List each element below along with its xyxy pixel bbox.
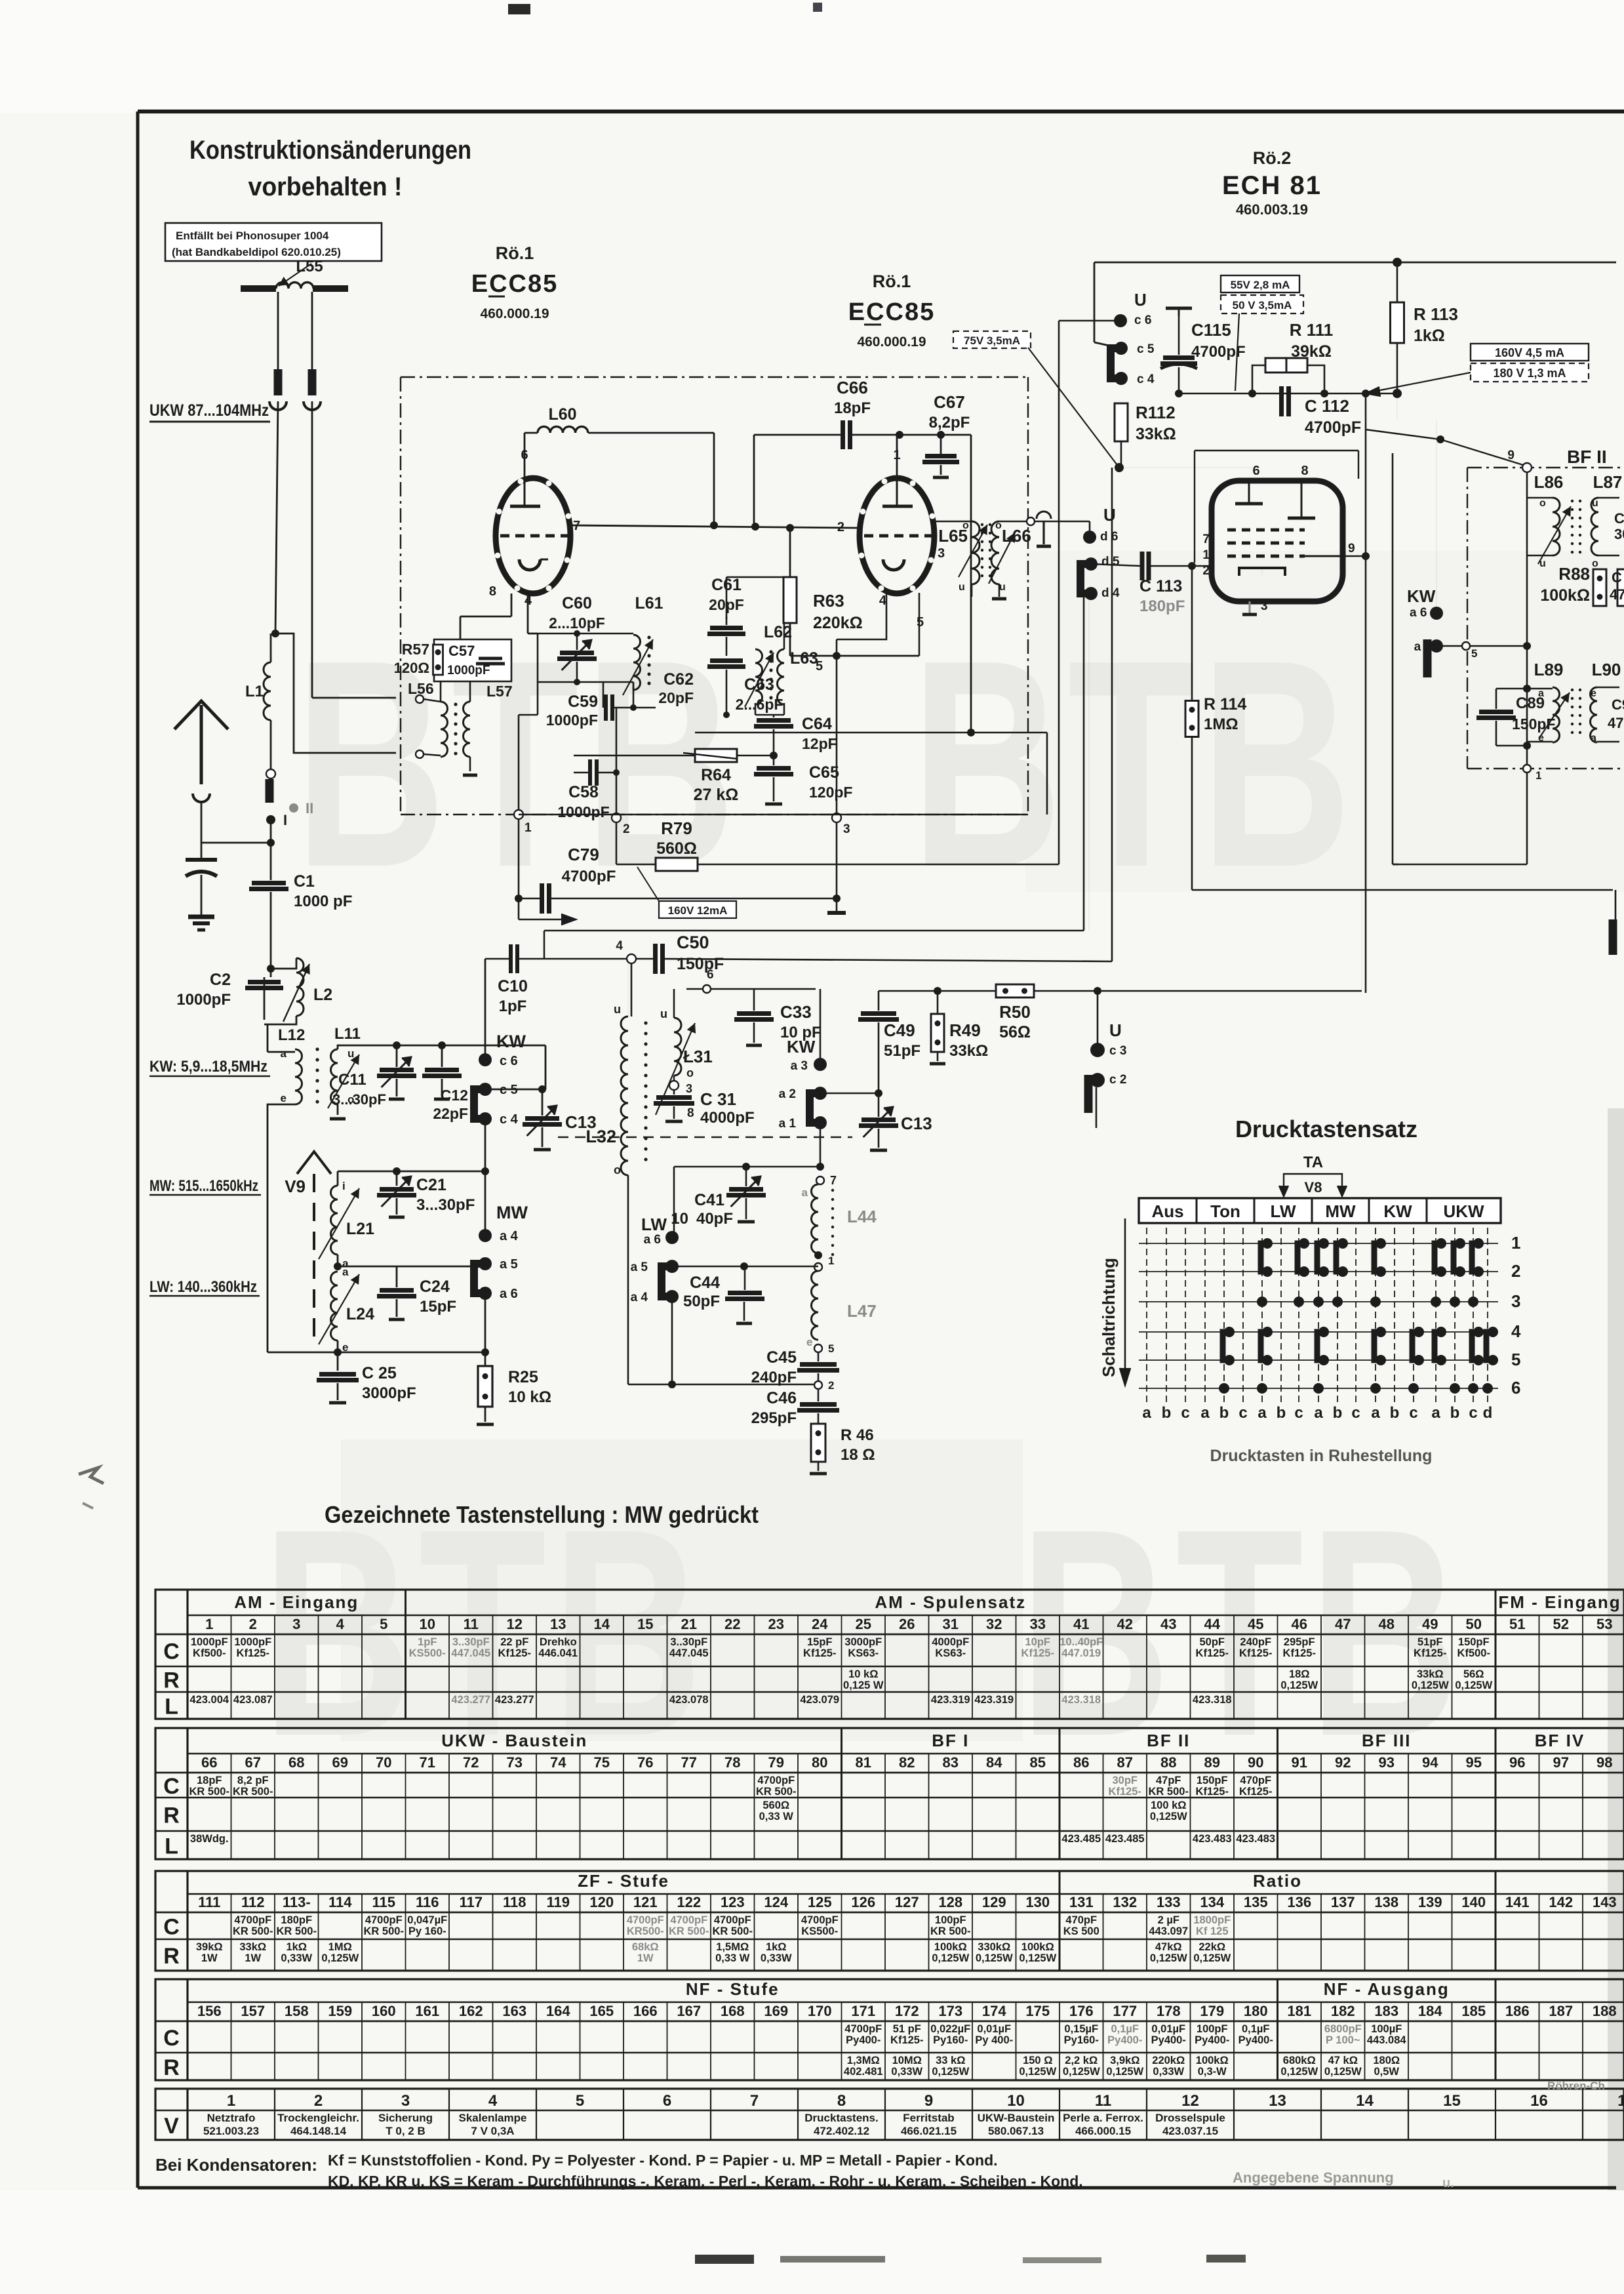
capacitor C1	[252, 881, 286, 885]
svg-text:7: 7	[1202, 533, 1210, 546]
svg-text:b: b	[1219, 1404, 1229, 1422]
svg-text:20pF: 20pF	[658, 689, 694, 706]
resistor R57 C57 network	[434, 639, 511, 681]
svg-text:KR500-: KR500-	[627, 1925, 664, 1937]
svg-text:560Ω: 560Ω	[762, 1800, 789, 1811]
svg-text:KW: KW	[1383, 1201, 1412, 1221]
svg-text:0,5W: 0,5W	[1374, 2066, 1399, 2078]
svg-text:Kf125-: Kf125-	[1239, 1786, 1272, 1798]
svg-text:1pF: 1pF	[418, 1636, 437, 1648]
svg-text:Py 400-: Py 400-	[975, 2034, 1013, 2046]
svg-text:a 5: a 5	[500, 1257, 518, 1272]
svg-text:C11: C11	[338, 1071, 366, 1089]
svg-text:C49: C49	[884, 1020, 915, 1040]
svg-text:0,047µF: 0,047µF	[407, 1914, 447, 1926]
svg-text:C50: C50	[677, 933, 709, 952]
svg-text:ZF - Stufe: ZF - Stufe	[578, 1871, 669, 1891]
svg-text:b: b	[1450, 1404, 1460, 1422]
svg-text:8,2 pF: 8,2 pF	[237, 1775, 269, 1786]
svg-text:10pF: 10pF	[1025, 1636, 1050, 1648]
wire	[820, 1093, 879, 1095]
svg-text:87: 87	[1117, 1754, 1133, 1771]
wire pin9 to bus	[1343, 555, 1366, 557]
svg-text:L89: L89	[1534, 660, 1564, 679]
svg-text:45: 45	[1248, 1616, 1263, 1632]
svg-text:159: 159	[328, 2003, 352, 2019]
svg-text:Angegebene Spannung: Angegebene Spannung	[1233, 2169, 1394, 2186]
svg-text:1kΩ: 1kΩ	[766, 1941, 787, 1953]
svg-text:R79: R79	[661, 818, 692, 838]
svg-text:C79: C79	[568, 845, 599, 864]
svg-text:33kΩ: 33kΩ	[949, 1042, 988, 1060]
svg-text:50 V 3,5mA: 50 V 3,5mA	[1233, 299, 1292, 312]
svg-text:32: 32	[986, 1616, 1002, 1632]
svg-text:125: 125	[808, 1894, 832, 1910]
svg-text:460.003.19: 460.003.19	[1236, 201, 1308, 218]
svg-text:130: 130	[1025, 1894, 1050, 1910]
svg-text:a 1: a 1	[779, 1117, 797, 1131]
svg-text:Aus: Aus	[1151, 1201, 1183, 1221]
resistor R114	[1191, 566, 1193, 700]
svg-text:L32: L32	[585, 1127, 616, 1146]
svg-text:3: 3	[1261, 599, 1268, 613]
svg-text:10..40pF: 10..40pF	[1060, 1636, 1103, 1648]
svg-text:C10: C10	[498, 977, 528, 996]
svg-text:15: 15	[637, 1616, 653, 1632]
svg-text:15: 15	[1443, 2092, 1461, 2110]
svg-text:423.483: 423.483	[1236, 1833, 1275, 1845]
capacitor C24	[380, 1288, 414, 1293]
svg-text:179: 179	[1200, 2003, 1224, 2019]
svg-text:21: 21	[681, 1616, 697, 1632]
svg-text:C 31: C 31	[700, 1089, 736, 1109]
svg-text:51 pF: 51 pF	[893, 2023, 921, 2035]
svg-text:AM - Eingang: AM - Eingang	[234, 1592, 359, 1612]
svg-text:160V 12mA: 160V 12mA	[668, 904, 728, 917]
wire UKW box bottom	[519, 814, 1028, 815]
svg-text:47pF: 47pF	[1156, 1775, 1181, 1786]
svg-text:158: 158	[285, 2003, 309, 2019]
svg-text:51: 51	[1509, 1616, 1525, 1632]
svg-text:5: 5	[1511, 1350, 1520, 1369]
svg-text:R64: R64	[701, 766, 731, 784]
svg-text:R57: R57	[402, 641, 429, 658]
svg-text:402.481: 402.481	[844, 2066, 883, 2078]
capacitor C41	[729, 1187, 763, 1192]
wire	[773, 715, 775, 717]
cathode pin 3	[1249, 601, 1251, 614]
svg-text:C67: C67	[934, 392, 965, 412]
svg-text:141: 141	[1505, 1894, 1530, 1910]
svg-text:c: c	[1181, 1404, 1189, 1422]
svg-text:a 4: a 4	[500, 1229, 519, 1243]
svg-text:140: 140	[1461, 1894, 1486, 1910]
svg-text:13: 13	[550, 1616, 566, 1632]
svg-text:0,125W: 0,125W	[1106, 2066, 1143, 2078]
svg-text:51pF: 51pF	[884, 1042, 921, 1060]
svg-text:150pF: 150pF	[1197, 1775, 1228, 1786]
svg-text:1,5MΩ: 1,5MΩ	[716, 1941, 749, 1953]
svg-text:70: 70	[376, 1754, 391, 1771]
svg-text:R: R	[163, 2055, 180, 2080]
svg-text:a 6: a 6	[644, 1233, 661, 1247]
svg-text:98: 98	[1596, 1754, 1612, 1771]
svg-text:0,33W: 0,33W	[1153, 2066, 1184, 2078]
svg-text:a 5: a 5	[631, 1260, 648, 1274]
svg-text:71: 71	[420, 1754, 435, 1771]
svg-text:KS500-: KS500-	[409, 1647, 446, 1659]
svg-text:126: 126	[851, 1894, 875, 1910]
svg-text:1: 1	[1535, 769, 1541, 782]
svg-text:181: 181	[1287, 2003, 1311, 2019]
svg-text:116: 116	[416, 1894, 439, 1910]
svg-text:II: II	[306, 800, 313, 816]
svg-text:22 pF: 22 pF	[500, 1636, 528, 1648]
svg-text:33kΩ: 33kΩ	[239, 1941, 266, 1953]
svg-text:V9: V9	[285, 1177, 306, 1196]
svg-text:Rö.2: Rö.2	[1253, 148, 1292, 168]
svg-text:KR 500-: KR 500-	[669, 1925, 709, 1937]
svg-text:14: 14	[1356, 2092, 1374, 2110]
svg-text:C24: C24	[420, 1278, 450, 1296]
svg-text:33: 33	[1030, 1616, 1046, 1632]
svg-text:0,125W: 0,125W	[932, 2066, 969, 2078]
svg-text:81: 81	[856, 1754, 871, 1771]
table V parts	[155, 2089, 1624, 2140]
svg-text:Sicherung: Sicherung	[378, 2112, 433, 2124]
svg-text:2...6pF: 2...6pF	[736, 696, 783, 713]
svg-text:10: 10	[420, 1616, 435, 1632]
svg-text:143: 143	[1593, 1894, 1617, 1910]
svg-text:L87: L87	[1593, 472, 1623, 492]
svg-text:55V 2,8 mA: 55V 2,8 mA	[1231, 279, 1290, 291]
node	[393, 1041, 401, 1049]
wire	[338, 1045, 545, 1049]
arrow out	[518, 910, 520, 919]
svg-text:174: 174	[982, 2003, 1006, 2019]
svg-text:4: 4	[336, 1616, 345, 1632]
svg-text:76: 76	[637, 1754, 653, 1771]
svg-text:e: e	[1591, 688, 1596, 699]
svg-text:93: 93	[1379, 1754, 1395, 1771]
svg-text:6: 6	[707, 968, 714, 982]
svg-text:7: 7	[750, 2092, 759, 2110]
svg-text:0,125W: 0,125W	[932, 1952, 969, 1964]
svg-text:100kΩ: 100kΩ	[1540, 586, 1590, 605]
gang line	[558, 1137, 852, 1138]
svg-text:C41: C41	[694, 1191, 724, 1209]
svg-text:26: 26	[899, 1616, 915, 1632]
capacitor C25	[337, 1352, 339, 1371]
capacitor C88 cut	[1617, 569, 1624, 606]
svg-text:Entfällt bei Phonosuper 1004: Entfällt bei Phonosuper 1004	[176, 230, 329, 242]
svg-text:c: c	[1351, 1404, 1360, 1422]
resistor R46	[811, 1424, 825, 1462]
antenna arrow	[200, 705, 203, 784]
svg-text:C 25: C 25	[362, 1364, 397, 1382]
svg-text:a: a	[1258, 1404, 1267, 1422]
svg-text:177: 177	[1113, 2003, 1137, 2019]
svg-text:5: 5	[1471, 647, 1477, 660]
svg-text:162: 162	[459, 2003, 483, 2019]
svg-text:R 113: R 113	[1414, 304, 1458, 324]
wire	[485, 1119, 486, 1132]
svg-text:3000pF: 3000pF	[362, 1384, 416, 1402]
switch bracket c5 c4	[1111, 348, 1120, 378]
wire bottom AM row	[337, 1340, 339, 1352]
svg-text:1: 1	[205, 1616, 213, 1632]
node	[1115, 463, 1124, 472]
svg-text:169: 169	[764, 2003, 788, 2019]
svg-text:0,01µF: 0,01µF	[977, 2023, 1011, 2035]
svg-text:4700pF: 4700pF	[1191, 343, 1246, 361]
svg-text:89: 89	[1204, 1754, 1220, 1771]
ground	[188, 915, 214, 919]
svg-text:131: 131	[1069, 1894, 1094, 1910]
svg-text:67: 67	[245, 1754, 261, 1771]
svg-text:C: C	[1612, 569, 1622, 586]
node	[481, 1167, 489, 1175]
svg-text:1: 1	[227, 2092, 235, 2110]
svg-text:1pF: 1pF	[499, 997, 527, 1015]
wire	[633, 682, 635, 708]
svg-text:97: 97	[1553, 1754, 1569, 1771]
svg-text:NF - Stufe: NF - Stufe	[686, 1979, 780, 1999]
svg-text:C59: C59	[568, 693, 598, 711]
plug socket	[193, 794, 210, 802]
svg-text:R25: R25	[508, 1368, 538, 1386]
svg-text:69: 69	[332, 1754, 348, 1771]
svg-text:Py160-: Py160-	[933, 2034, 968, 2046]
svg-text:170: 170	[808, 2003, 832, 2019]
svg-text:L11: L11	[334, 1025, 361, 1043]
svg-text:10 kΩ: 10 kΩ	[508, 1388, 551, 1406]
svg-text:1MΩ: 1MΩ	[328, 1941, 352, 1953]
svg-text:472.402.12: 472.402.12	[814, 2125, 869, 2137]
wire pin7 row	[570, 525, 860, 528]
svg-text:a: a	[1200, 1404, 1210, 1422]
capacitor C21 (trimmer)	[380, 1187, 414, 1192]
svg-text:136: 136	[1287, 1894, 1311, 1910]
svg-text:Bei Kondensatoren:: Bei Kondensatoren:	[155, 2155, 317, 2175]
terminal 3	[673, 1076, 675, 1081]
svg-text:KS63-: KS63-	[848, 1647, 879, 1659]
svg-text:L44: L44	[847, 1207, 877, 1226]
svg-text:AM - Spulensatz: AM - Spulensatz	[875, 1592, 1026, 1612]
svg-text:BF II: BF II	[1147, 1731, 1190, 1750]
svg-text:0,125W: 0,125W	[1150, 1811, 1187, 1822]
svg-text:8: 8	[489, 584, 496, 599]
wire tube2 cathode	[837, 593, 886, 639]
pentode-heptode ECH81	[1212, 481, 1343, 601]
svg-text:u: u	[959, 582, 965, 593]
svg-text:b: b	[1390, 1404, 1400, 1422]
svg-text:R63: R63	[813, 591, 844, 611]
wire	[726, 576, 784, 578]
svg-text:c 4: c 4	[500, 1112, 519, 1127]
svg-text:1000pF: 1000pF	[191, 1636, 228, 1648]
svg-text:180pF: 180pF	[281, 1914, 312, 1926]
wire grid row	[1179, 393, 1397, 395]
svg-text:MW: MW	[496, 1203, 528, 1222]
bottom smudges	[695, 2255, 754, 2264]
switch bracket a2 a1	[810, 1093, 819, 1123]
svg-text:Py 160-: Py 160-	[408, 1925, 446, 1937]
svg-text:a: a	[281, 1047, 287, 1060]
svg-text:b: b	[1333, 1404, 1343, 1422]
svg-text:111: 111	[198, 1894, 220, 1910]
svg-text:4700pF: 4700pF	[234, 1914, 271, 1926]
svg-text:2: 2	[249, 1616, 257, 1632]
voltage note 160V	[1471, 344, 1589, 361]
table outline	[155, 1979, 1624, 2080]
svg-text:Kf500-: Kf500-	[1457, 1647, 1490, 1659]
svg-text:R 111: R 111	[1290, 320, 1334, 340]
svg-text:13: 13	[1269, 2092, 1286, 2110]
svg-text:9: 9	[1348, 542, 1355, 555]
inductor L21	[331, 1186, 338, 1255]
svg-text:72: 72	[463, 1754, 479, 1771]
wire	[518, 819, 520, 887]
svg-text:166: 166	[633, 2003, 658, 2019]
svg-text:0,1µF: 0,1µF	[1111, 2023, 1139, 2035]
svg-text:4700pF: 4700pF	[365, 1914, 403, 1926]
terminal 5	[1462, 642, 1470, 650]
svg-text:68kΩ: 68kΩ	[632, 1941, 659, 1953]
svg-text:51pF: 51pF	[1417, 1636, 1443, 1648]
svg-text:43: 43	[1160, 1616, 1176, 1632]
svg-text:4: 4	[1511, 1321, 1521, 1341]
svg-text:KW: KW	[496, 1032, 526, 1051]
svg-text:423.318: 423.318	[1193, 1694, 1232, 1706]
svg-text:11: 11	[1095, 2092, 1111, 2110]
svg-text:c 6: c 6	[1134, 313, 1151, 327]
svg-text:Kf125-: Kf125-	[1021, 1647, 1054, 1659]
svg-text:5: 5	[828, 1342, 834, 1355]
svg-text:3,9kΩ: 3,9kΩ	[1110, 2055, 1139, 2066]
svg-text:P 100~: P 100~	[1326, 2034, 1360, 2046]
svg-text:Ton: Ton	[1210, 1201, 1240, 1221]
svg-text:KW: 5,9...18,5MHz: KW: 5,9...18,5MHz	[149, 1058, 267, 1076]
svg-text:BTB: BTB	[911, 599, 1357, 929]
svg-text:423.004: 423.004	[189, 1694, 229, 1706]
svg-text:0,1µF: 0,1µF	[1242, 2023, 1270, 2035]
svg-text:94: 94	[1422, 1754, 1438, 1771]
svg-text:180 V 1,3 mA: 180 V 1,3 mA	[1493, 367, 1566, 380]
svg-text:d 5: d 5	[1101, 555, 1120, 569]
svg-text:KW: KW	[1407, 586, 1436, 606]
svg-text:1MΩ: 1MΩ	[1204, 715, 1238, 733]
svg-text:Ł31: Ł31	[683, 1047, 713, 1066]
svg-text:176: 176	[1069, 2003, 1094, 2019]
svg-text:Py400-: Py400-	[1195, 2034, 1229, 2046]
svg-text:11: 11	[464, 1616, 479, 1632]
svg-text:R 114: R 114	[1204, 695, 1246, 714]
wire	[267, 1024, 269, 1047]
wire grid box	[1195, 450, 1358, 451]
svg-text:a: a	[1142, 1404, 1151, 1422]
svg-text:31: 31	[943, 1616, 959, 1632]
svg-text:u.: u.	[1442, 2176, 1454, 2190]
svg-text:183: 183	[1374, 2003, 1398, 2019]
BFII dash-dot outline	[1467, 468, 1468, 769]
svg-text:1: 1	[525, 821, 532, 835]
svg-text:423.277: 423.277	[451, 1694, 490, 1706]
svg-text:25: 25	[856, 1616, 871, 1632]
svg-text:e: e	[281, 1092, 287, 1104]
svg-text:U: U	[1103, 505, 1116, 525]
svg-text:Drucktasten in Ruhestellung: Drucktasten in Ruhestellung	[1210, 1447, 1433, 1465]
resistor R50	[996, 984, 1034, 997]
svg-text:138: 138	[1374, 1894, 1398, 1910]
svg-text:C: C	[163, 2026, 180, 2051]
svg-text:C60: C60	[562, 594, 592, 613]
svg-text:18pF: 18pF	[834, 399, 871, 417]
connector d5 d4	[1080, 564, 1090, 594]
svg-text:u: u	[614, 1003, 621, 1016]
connector a5 right	[1423, 639, 1432, 677]
svg-text:14: 14	[594, 1616, 610, 1632]
svg-text:UKW 87...104MHz: UKW 87...104MHz	[149, 401, 269, 420]
svg-text:1: 1	[1511, 1233, 1520, 1253]
svg-text:a: a	[342, 1266, 349, 1278]
svg-text:172: 172	[895, 2003, 919, 2019]
svg-text:521.003.23: 521.003.23	[203, 2125, 259, 2137]
svg-text:53: 53	[1596, 1616, 1612, 1632]
svg-text:KD. KP. KR u. KS = Keram - Dur: KD. KP. KR u. KS = Keram - Durchführungs…	[328, 2173, 1083, 2190]
svg-text:L90: L90	[1592, 660, 1621, 679]
svg-text:167: 167	[677, 2003, 701, 2019]
svg-text:R: R	[163, 1803, 180, 1828]
svg-text:160: 160	[372, 2003, 396, 2019]
svg-text:4700pF: 4700pF	[670, 1914, 707, 1926]
svg-text:3...30pF: 3...30pF	[416, 1196, 475, 1214]
svg-text:8: 8	[837, 2092, 846, 2110]
svg-text:23: 23	[768, 1616, 784, 1632]
svg-text:C115: C115	[1191, 320, 1231, 340]
svg-text:1000pF: 1000pF	[557, 803, 609, 820]
node	[267, 839, 275, 847]
svg-text:I: I	[283, 812, 287, 828]
svg-text:95: 95	[1466, 1754, 1482, 1771]
svg-text:33kΩ: 33kΩ	[1417, 1668, 1444, 1680]
svg-text:KS 500: KS 500	[1063, 1925, 1099, 1937]
svg-text:4700pF: 4700pF	[627, 1914, 664, 1926]
svg-text:a 5: a 5	[1414, 640, 1432, 654]
svg-text:c: c	[1469, 1404, 1477, 1422]
svg-text:52: 52	[1553, 1616, 1569, 1632]
wire	[337, 1104, 339, 1115]
svg-text:9: 9	[924, 2092, 933, 2110]
svg-text:41: 41	[1073, 1616, 1089, 1632]
svg-text:UKW - Baustein: UKW - Baustein	[441, 1731, 587, 1750]
wire	[1365, 630, 1366, 632]
svg-text:3...30pF: 3...30pF	[332, 1091, 386, 1108]
svg-text:Trockengleichr.: Trockengleichr.	[277, 2112, 359, 2124]
capacitor C46	[800, 1402, 837, 1407]
svg-text:8,2pF: 8,2pF	[929, 414, 970, 432]
svg-text:C57: C57	[448, 643, 475, 659]
svg-text:1W: 1W	[637, 1952, 654, 1964]
svg-text:180pF: 180pF	[1139, 597, 1185, 615]
svg-text:4700pF: 4700pF	[801, 1914, 839, 1926]
svg-text:82: 82	[899, 1754, 915, 1771]
svg-text:U: U	[1109, 1020, 1122, 1040]
svg-text:1: 1	[1202, 548, 1210, 562]
svg-text:0,125 W: 0,125 W	[843, 1680, 884, 1691]
svg-text:d 6: d 6	[1100, 530, 1118, 544]
svg-text:84: 84	[986, 1754, 1002, 1771]
